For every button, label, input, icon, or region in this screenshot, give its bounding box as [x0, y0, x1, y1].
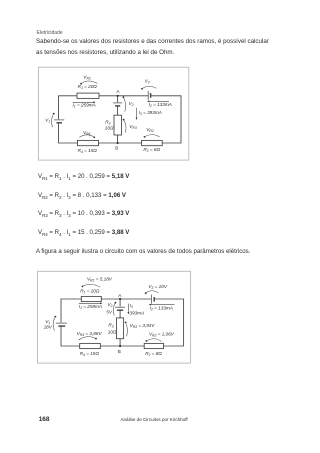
svg-text:5V: 5V — [106, 310, 113, 315]
svg-text:V2: V2 — [129, 101, 134, 107]
svg-text:VR1: VR1 — [83, 74, 91, 80]
svg-text:I3 = 393mA: I3 = 393mA — [139, 110, 162, 116]
svg-text:R2 = 8Ω: R2 = 8Ω — [145, 351, 162, 357]
svg-text:R3: R3 — [108, 322, 113, 328]
svg-text:R2 = 8Ω: R2 = 8Ω — [143, 147, 160, 153]
svg-text:393mA: 393mA — [129, 310, 144, 315]
svg-text:V2: V2 — [107, 302, 112, 308]
svg-text:R4 = 15Ω: R4 = 15Ω — [78, 148, 98, 154]
svg-text:V3: V3 — [145, 78, 150, 84]
svg-text:VR4 = 3,88V: VR4 = 3,88V — [77, 331, 103, 337]
svg-text:R1 = 20Ω: R1 = 20Ω — [80, 289, 100, 295]
svg-text:V3 = 10V: V3 = 10V — [148, 284, 167, 290]
svg-text:18V: 18V — [44, 324, 53, 329]
svg-text:I3: I3 — [130, 303, 133, 309]
svg-text:B: B — [115, 146, 118, 151]
svg-text:VR3 = 3,93V: VR3 = 3,93V — [130, 323, 156, 329]
svg-text:VR1 = 5,18V: VR1 = 5,18V — [87, 276, 113, 282]
svg-text:A: A — [118, 293, 122, 298]
svg-text:VR3: VR3 — [129, 124, 137, 130]
svg-text:R1 = 20Ω: R1 = 20Ω — [78, 84, 98, 90]
svg-text:I1 = 259mA: I1 = 259mA — [73, 103, 96, 109]
svg-text:VR2: VR2 — [146, 127, 154, 133]
svg-text:10Ω: 10Ω — [108, 330, 117, 335]
svg-text:I1 = 259mA: I1 = 259mA — [79, 304, 102, 310]
svg-text:B: B — [118, 349, 121, 354]
svg-text:A: A — [116, 89, 120, 94]
svg-text:R3: R3 — [105, 120, 110, 126]
svg-text:10Ω: 10Ω — [105, 126, 114, 131]
svg-text:I2 = 133mA: I2 = 133mA — [150, 305, 173, 311]
svg-text:V1: V1 — [45, 118, 50, 124]
svg-text:R4 = 15Ω: R4 = 15Ω — [80, 351, 100, 357]
svg-text:I2 = 133mA: I2 = 133mA — [149, 102, 172, 108]
svg-text:VR2 = 1,06V: VR2 = 1,06V — [149, 332, 175, 338]
